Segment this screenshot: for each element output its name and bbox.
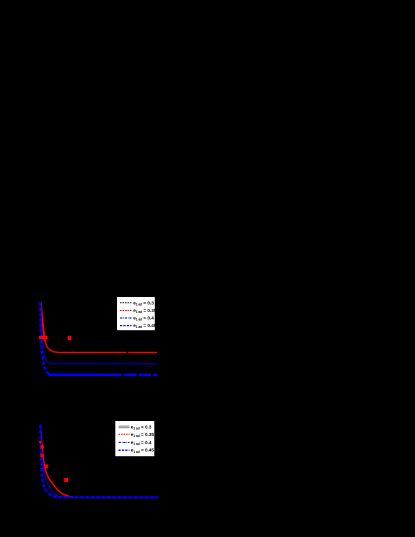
legend text — [131, 424, 155, 454]
legend line 0.3 (black dashed) — [120, 302, 132, 304]
bottom chart: red data points — [39, 441, 41, 443]
top chart: legend box — [117, 297, 155, 330]
legend line 0.3 (gray solid) — [119, 425, 130, 427]
legend line 0.4 (navy dashdot) — [119, 441, 130, 443]
legend line 0.4 (navy dashdot) — [120, 317, 132, 319]
top chart: red data point with horizontal error bar — [39, 336, 48, 339]
bottom chart: curve e1ad=0.45 (bright blue dashed) — [40, 425, 158, 498]
top chart: isolated red data point — [68, 336, 72, 340]
legend line 0.45 (blue dashed) — [120, 325, 132, 327]
top chart: curve e1ad=0.35 (red dashed) — [41, 302, 45, 341]
top chart: curve e1ad=0.4 (navy dashed) — [41, 302, 157, 364]
legend line 0.45 (blue dashed) — [119, 449, 130, 451]
top chart: curve e1ad=0.45 (bright blue dashed) — [40, 302, 50, 374]
bottom chart: curve e1ad=0.35 (red dashed) — [41, 425, 158, 498]
legend text — [133, 300, 157, 329]
top chart: dash break in red flat line — [126, 351, 128, 353]
bottom chart: curve e1ad=0.4 (navy dashed) — [41, 425, 159, 498]
bottom chart: legend box — [115, 421, 154, 456]
legend line 0.35 (red dashed) — [119, 433, 130, 435]
legend line 0.35 (red dashed) — [120, 310, 132, 312]
